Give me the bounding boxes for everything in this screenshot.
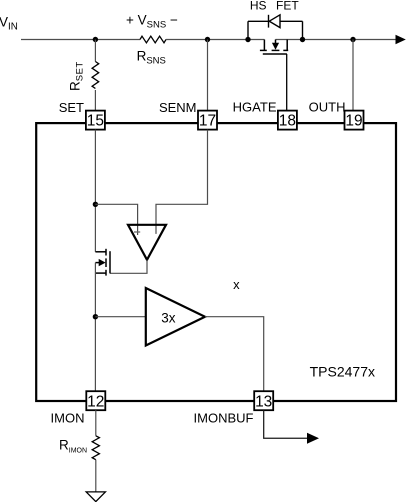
svg-text:19: 19 (345, 113, 362, 130)
wire RIMON to ground (95, 460, 97, 492)
svg-text:3x: 3x (161, 310, 176, 325)
IC body TPS2477x (36, 123, 396, 401)
svg-text:IMONBUF: IMONBUF (194, 411, 254, 426)
resistor RSNS (140, 36, 166, 43)
pin 18 box (278, 111, 297, 130)
pin 12 box (86, 391, 105, 410)
junction RSET tap (93, 37, 98, 42)
wire SET inside vertical (drain branch) (94, 130, 96, 252)
svg-text:17: 17 (199, 113, 216, 130)
svg-text:TPS2477x: TPS2477x (310, 364, 375, 380)
resistor RIMON (92, 436, 99, 460)
wire RSET bottom lead (94, 90, 96, 111)
junction 3x amp tap (93, 314, 98, 319)
svg-text:HGATE: HGATE (233, 100, 277, 115)
junction diode anode side (245, 37, 250, 42)
svg-text:15: 15 (87, 113, 104, 130)
wire RSET top lead (94, 40, 96, 62)
arrowhead internal FET body (99, 259, 106, 266)
wire source to IMON pin 12 (94, 263, 96, 392)
amplifier 3x (146, 288, 205, 346)
arrowhead IMONBUF output (307, 433, 319, 444)
junction SENM tap (205, 37, 210, 42)
wire VIN rail left segment (21, 39, 140, 41)
svg-text:18: 18 (279, 113, 296, 130)
transistor internal FET (95, 249, 110, 276)
svg-text:FET: FET (276, 0, 299, 13)
arrowhead HS FET body (272, 43, 279, 50)
resistor RSET (92, 62, 99, 89)
transistor HS FET (260, 40, 288, 55)
svg-text:x: x (233, 277, 240, 292)
pin 13 box (254, 391, 273, 410)
wire VIN rail right segment (276, 39, 397, 41)
wire OUTH vertical to pin 19 (352, 40, 354, 111)
svg-text:13: 13 (255, 393, 272, 410)
pin 15 box (86, 111, 105, 130)
wire to op-amp plus input (95, 204, 137, 235)
junction diode cathode side (300, 37, 305, 42)
svg-text:12: 12 (87, 393, 104, 410)
wire IMON pin 12 to RIMON (95, 410, 97, 436)
arrowhead VIN rail output (396, 35, 406, 45)
svg-text:HS: HS (250, 0, 267, 13)
pin 17 box (198, 111, 217, 130)
wire op-amp output to internal FET gate (110, 260, 147, 274)
junction op-amp plus tap (93, 202, 98, 207)
svg-text:OUTH: OUTH (309, 100, 346, 115)
wire to 3x amp input (95, 316, 145, 318)
wire IMONBUF pin 13 output (264, 410, 308, 438)
svg-text:SENM: SENM (159, 100, 197, 115)
junction OUTH tap (350, 37, 355, 42)
wire SENM vertical to pin 17 (207, 40, 209, 111)
op-amp U1 (128, 225, 166, 260)
svg-text:SET: SET (59, 100, 84, 115)
diode D body of HS FET (248, 15, 303, 40)
wire VIN rail mid segment (166, 39, 264, 41)
wire 3x amp output to pin 13 (205, 317, 264, 392)
wire HGATE from gate to pin 18 (286, 54, 288, 111)
pin 19 box (345, 111, 364, 130)
svg-text:IMON: IMON (51, 411, 85, 426)
op-amp plus input marker (134, 231, 140, 233)
ground symbol (86, 492, 105, 502)
wire SENM inside to op-amp minus input (156, 130, 208, 234)
